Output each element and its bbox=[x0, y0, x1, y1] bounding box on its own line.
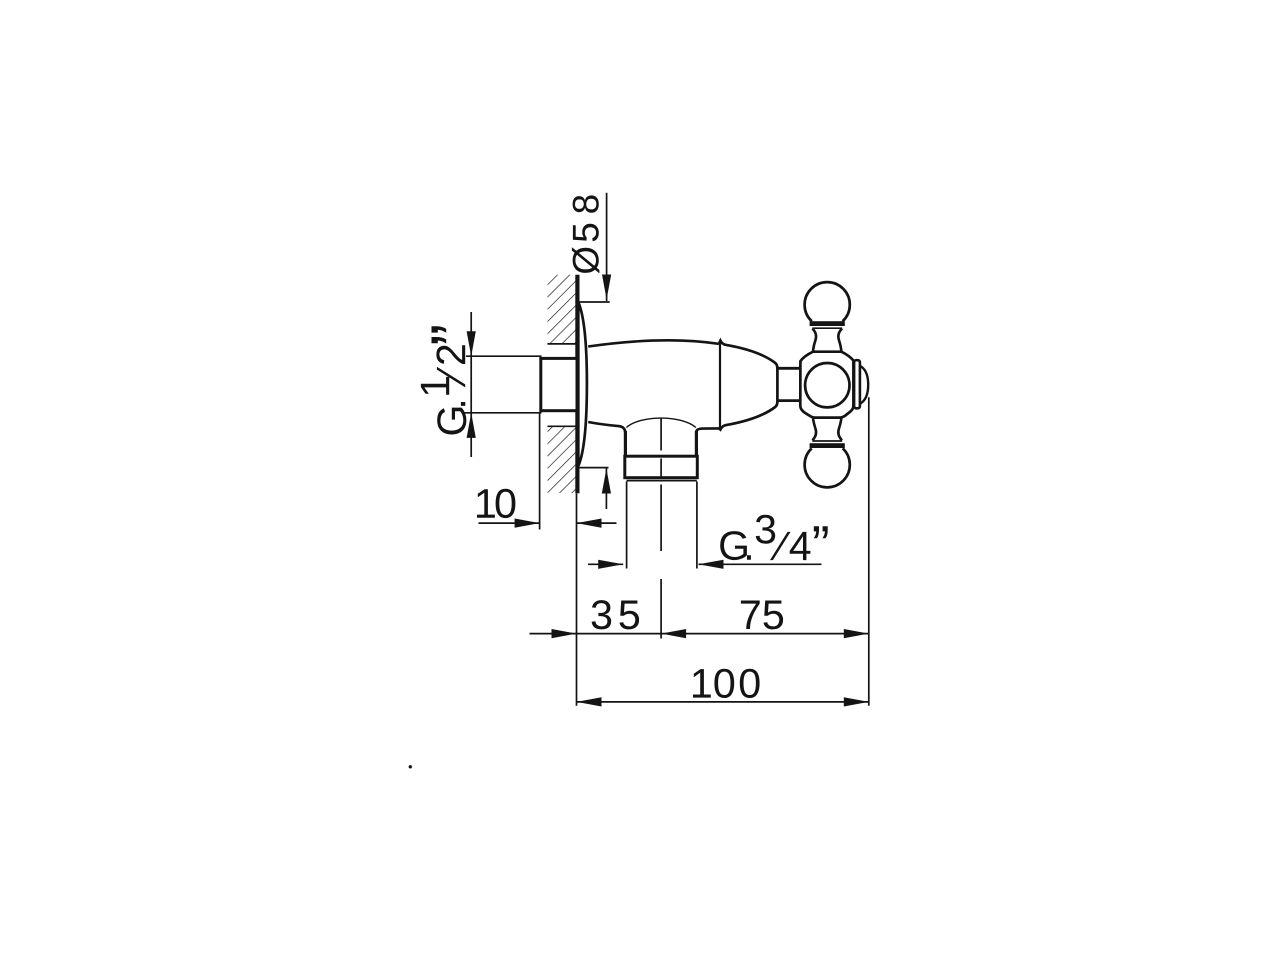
35/75 main line bbox=[577, 633, 869, 635]
handle top collar band bbox=[810, 321, 845, 326]
10 dim left arrow (right pointing) bbox=[515, 519, 540, 528]
handle hub circle bbox=[805, 363, 849, 407]
Ø58 up arrow tail bbox=[605, 469, 607, 510]
outlet centerline bbox=[660, 418, 662, 639]
handle hub body bbox=[800, 352, 853, 418]
Ø58 bottom reference line bbox=[577, 467, 609, 469]
10 dim right tail bbox=[577, 522, 617, 524]
label O58 bbox=[572, 195, 600, 273]
nipple bottom extension line bbox=[462, 412, 542, 414]
75 left arrow (left pointing at centerline) bbox=[661, 629, 686, 638]
wall hatch lower block bbox=[548, 426, 576, 493]
stem bottom edge bbox=[777, 399, 800, 402]
handle bottom ball bbox=[805, 448, 850, 487]
Ø58 top reference line bbox=[575, 301, 609, 303]
outlet left extension line bbox=[626, 482, 628, 569]
10 dim right arrow (left pointing) bbox=[577, 519, 602, 528]
handle bottom collar upper line bbox=[812, 440, 842, 442]
G.1/2 top arrow (down) bbox=[467, 331, 476, 356]
Ø58 dimension vertical line bbox=[606, 193, 608, 301]
right extension line from handle bbox=[868, 397, 870, 706]
outlet right vertical bbox=[695, 431, 698, 457]
75 right arrow (right pointing) bbox=[844, 629, 869, 638]
bonnet base edge line bbox=[719, 341, 721, 430]
handle dome bbox=[860, 366, 868, 404]
G1/2 nipple square bbox=[541, 358, 577, 410]
handle top neck left bbox=[812, 329, 816, 352]
nipple top extension line bbox=[466, 355, 542, 357]
G.3/4 dimension line left part bbox=[588, 563, 623, 565]
wall hatch upper bottom edge bbox=[548, 343, 577, 345]
wall hatch upper block bbox=[548, 275, 576, 344]
handle top collar lower line bbox=[812, 327, 842, 329]
body top outline bbox=[588, 340, 719, 346]
collar lower thin line bbox=[627, 480, 697, 482]
label 100 bbox=[693, 669, 760, 698]
body bottom right corner to bonnet bbox=[696, 428, 719, 431]
handle bottom neck left bbox=[812, 418, 816, 441]
label 75 bbox=[741, 601, 783, 630]
label 10 bbox=[477, 489, 515, 518]
nipple left extension line down to 10-dim bbox=[539, 414, 541, 530]
G.3/4 right arrow (left pointing) bbox=[699, 560, 724, 569]
outlet shoulder arc bbox=[626, 418, 695, 427]
G.3/4 dimension line right tail bbox=[699, 563, 822, 565]
G.1/2 bottom arrow (up) bbox=[467, 413, 476, 438]
handle top ball bbox=[805, 282, 850, 321]
flange (escutcheon) profile bbox=[578, 303, 587, 465]
G.3/4 left arrow (right pointing) bbox=[598, 560, 623, 569]
wall face line bbox=[575, 275, 579, 494]
handle right plate bbox=[854, 360, 860, 408]
label G.3/4" bbox=[720, 515, 828, 560]
Ø58 down arrow bbox=[602, 275, 611, 300]
handle bottom neck right bbox=[838, 418, 842, 441]
100 left arrow (left pointing) bbox=[577, 697, 602, 706]
outlet left vertical bbox=[624, 431, 627, 457]
outlet right extension line bbox=[696, 482, 698, 569]
35 left arrow (right pointing at wall line) bbox=[552, 629, 577, 638]
label G.1/2" bbox=[421, 326, 467, 434]
stem top edge bbox=[777, 367, 800, 370]
body bottom outline bbox=[588, 422, 625, 434]
100 dimension line bbox=[577, 701, 869, 703]
label 35 bbox=[592, 600, 640, 629]
G.1/2 dimension line vertical bbox=[470, 312, 472, 457]
handle bottom collar band bbox=[810, 443, 845, 448]
handle top neck right bbox=[838, 329, 842, 352]
wall face extension line bbox=[576, 493, 578, 706]
bonnet outline bbox=[719, 341, 778, 430]
wall hatch lower top edge bbox=[548, 425, 577, 427]
stray dot bbox=[409, 765, 412, 768]
10 dimension line left tail bbox=[479, 522, 540, 524]
Ø58 up arrow bbox=[602, 469, 611, 494]
100 right arrow (right pointing) bbox=[844, 697, 869, 706]
outlet collar (nut) bbox=[625, 456, 698, 478]
35/75 dimension line bbox=[530, 633, 577, 635]
